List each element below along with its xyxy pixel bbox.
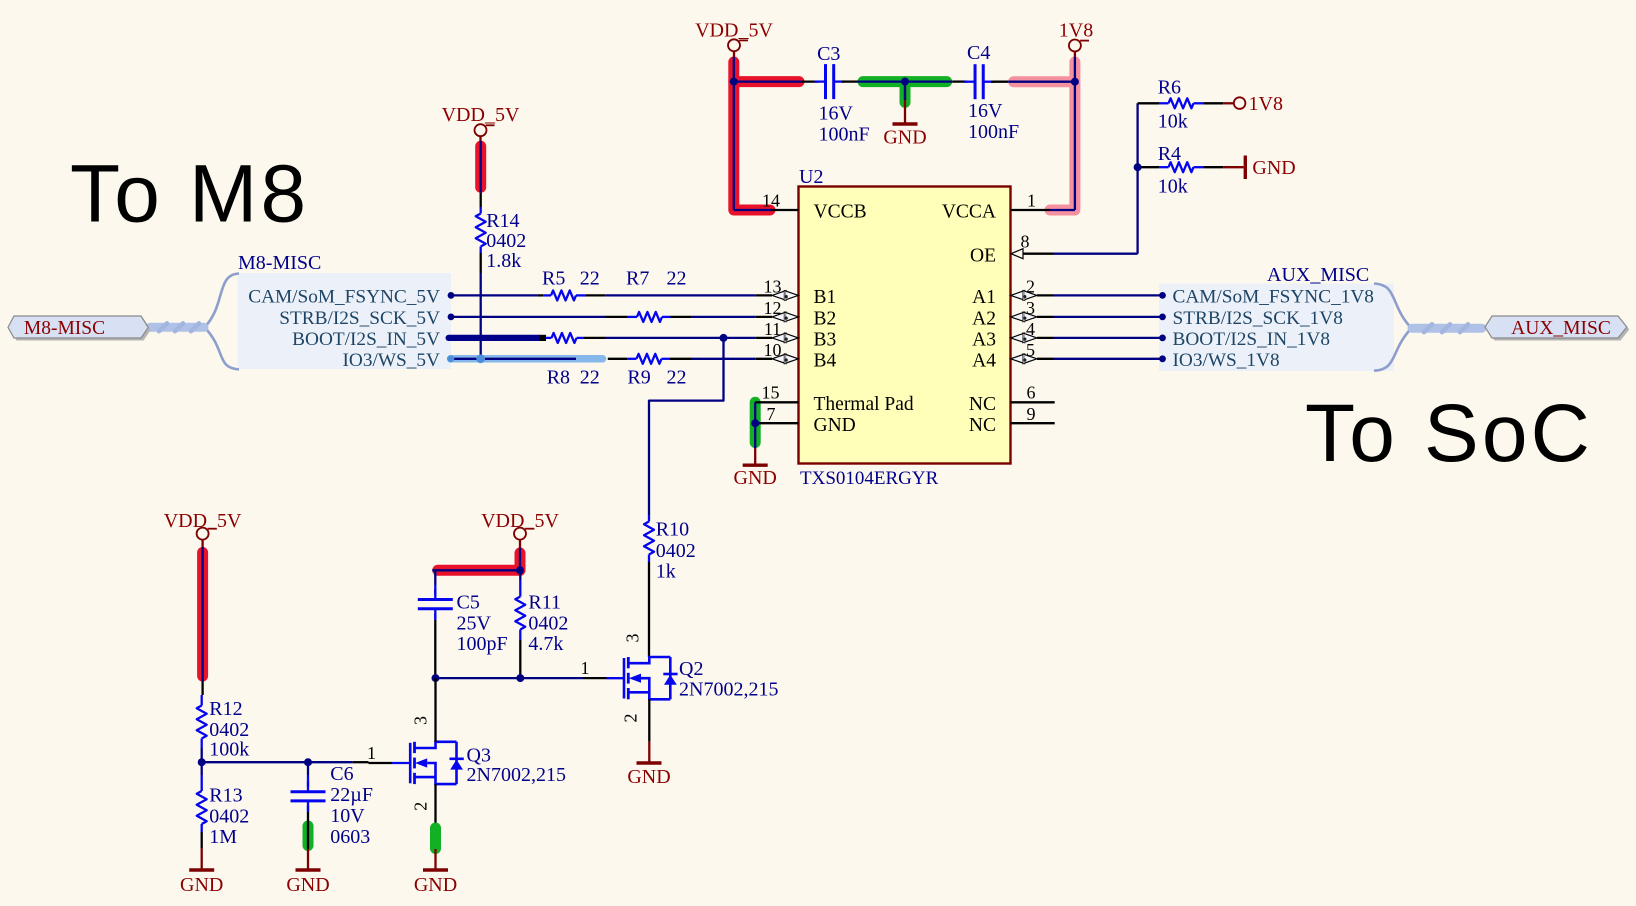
svg-text:R14: R14	[486, 210, 519, 232]
svg-text:Thermal Pad: Thermal Pad	[814, 394, 914, 415]
svg-text:1.8k: 1.8k	[486, 250, 521, 272]
svg-text:A2: A2	[972, 309, 996, 330]
svg-text:2N7002,215: 2N7002,215	[467, 764, 566, 786]
svg-text:1: 1	[367, 743, 376, 763]
svg-text:22: 22	[580, 367, 600, 389]
svg-text:VCCA: VCCA	[942, 202, 996, 223]
svg-text:1: 1	[581, 658, 590, 678]
svg-text:14: 14	[762, 191, 780, 211]
svg-text:VCCB: VCCB	[814, 202, 867, 223]
svg-text:0603: 0603	[330, 826, 370, 848]
svg-text:1M: 1M	[209, 826, 237, 848]
svg-text:15: 15	[762, 382, 780, 402]
svg-text:0402: 0402	[486, 230, 526, 252]
svg-text:100nF: 100nF	[968, 121, 1019, 143]
svg-text:R12: R12	[209, 698, 242, 720]
svg-text:GND: GND	[627, 766, 670, 788]
svg-text:16V: 16V	[819, 103, 854, 125]
svg-text:C6: C6	[330, 763, 353, 785]
svg-text:R13: R13	[209, 785, 242, 807]
svg-text:R11: R11	[528, 592, 561, 614]
svg-text:10k: 10k	[1158, 176, 1188, 198]
svg-text:6: 6	[1027, 383, 1036, 403]
svg-text:22: 22	[667, 268, 687, 290]
svg-text:1V8: 1V8	[1249, 93, 1283, 115]
svg-text:GND: GND	[734, 467, 777, 489]
svg-text:9: 9	[1027, 404, 1036, 424]
svg-text:A3: A3	[972, 330, 996, 351]
svg-text:B1: B1	[814, 287, 837, 308]
svg-text:AUX_MISC: AUX_MISC	[1267, 264, 1369, 286]
svg-text:R10: R10	[656, 519, 689, 541]
svg-text:1k: 1k	[656, 561, 676, 583]
svg-text:R4: R4	[1158, 143, 1181, 165]
svg-text:0402: 0402	[209, 806, 249, 828]
svg-text:GND: GND	[883, 127, 926, 149]
svg-text:10V: 10V	[330, 805, 365, 827]
svg-text:AUX_MISC: AUX_MISC	[1511, 318, 1611, 339]
svg-text:IO3/WS_1V8: IO3/WS_1V8	[1173, 350, 1280, 371]
svg-text:2: 2	[621, 714, 641, 723]
svg-text:12: 12	[764, 298, 782, 318]
svg-text:11: 11	[764, 319, 781, 339]
svg-text:C5: C5	[457, 592, 480, 614]
svg-text:5: 5	[1026, 340, 1035, 360]
svg-text:C3: C3	[817, 43, 840, 65]
svg-text:4: 4	[1026, 319, 1035, 339]
svg-text:U2: U2	[799, 166, 823, 188]
svg-text:Q2: Q2	[679, 658, 703, 680]
svg-text:8: 8	[1021, 232, 1030, 252]
svg-text:1V8: 1V8	[1059, 20, 1093, 42]
svg-text:R8: R8	[547, 367, 570, 389]
svg-text:M8-MISC: M8-MISC	[24, 318, 105, 339]
svg-text:2N7002,215: 2N7002,215	[679, 679, 778, 701]
svg-text:NC: NC	[969, 394, 996, 415]
svg-text:0402: 0402	[528, 613, 568, 635]
svg-text:B3: B3	[814, 330, 837, 351]
svg-text:22: 22	[667, 367, 687, 389]
svg-text:C4: C4	[967, 42, 990, 64]
svg-text:VDD_5V: VDD_5V	[695, 20, 773, 42]
svg-text:1: 1	[1027, 191, 1036, 211]
svg-text:NC: NC	[969, 415, 996, 436]
svg-text:25V: 25V	[457, 613, 492, 635]
svg-text:R7: R7	[626, 268, 649, 290]
svg-text:100pF: 100pF	[457, 633, 508, 655]
svg-text:100k: 100k	[209, 739, 249, 761]
svg-text:VDD_5V: VDD_5V	[442, 104, 520, 126]
svg-text:3: 3	[623, 634, 643, 643]
svg-text:10: 10	[764, 340, 782, 360]
svg-text:R5: R5	[542, 268, 565, 290]
svg-text:R6: R6	[1158, 77, 1181, 99]
svg-text:VDD_5V: VDD_5V	[481, 510, 559, 532]
svg-text:To SoC: To SoC	[1305, 388, 1593, 479]
svg-text:GND: GND	[180, 874, 223, 896]
svg-text:GND: GND	[1252, 157, 1295, 179]
svg-text:22: 22	[580, 268, 600, 290]
svg-text:B2: B2	[814, 309, 837, 330]
svg-text:7: 7	[767, 404, 776, 424]
svg-text:A1: A1	[972, 287, 996, 308]
svg-text:10k: 10k	[1158, 111, 1188, 133]
svg-text:0402: 0402	[656, 540, 696, 562]
svg-text:B4: B4	[814, 350, 837, 371]
svg-text:STRB/I2S_SCK_5V: STRB/I2S_SCK_5V	[279, 308, 440, 329]
svg-text:STRB/I2S_SCK_1V8: STRB/I2S_SCK_1V8	[1173, 308, 1343, 329]
svg-text:16V: 16V	[968, 100, 1003, 122]
svg-text:BOOT/I2S_IN_1V8: BOOT/I2S_IN_1V8	[1173, 329, 1330, 350]
svg-text:3: 3	[411, 716, 431, 725]
svg-text:BOOT/I2S_IN_5V: BOOT/I2S_IN_5V	[292, 329, 440, 350]
svg-text:2: 2	[1026, 277, 1035, 297]
svg-text:TXS0104ERGYR: TXS0104ERGYR	[800, 468, 939, 489]
svg-text:VDD_5V: VDD_5V	[164, 510, 242, 532]
svg-text:2: 2	[411, 802, 431, 811]
svg-text:GND: GND	[286, 874, 329, 896]
svg-text:GND: GND	[814, 415, 856, 436]
svg-text:13: 13	[764, 277, 782, 297]
svg-text:IO3/WS_5V: IO3/WS_5V	[343, 350, 441, 371]
svg-text:CAM/SoM_FSYNC_1V8: CAM/SoM_FSYNC_1V8	[1173, 287, 1374, 308]
svg-text:R9: R9	[627, 367, 650, 389]
svg-text:CAM/SoM_FSYNC_5V: CAM/SoM_FSYNC_5V	[248, 287, 440, 308]
svg-text:A4: A4	[972, 350, 996, 371]
svg-text:22µF: 22µF	[330, 784, 373, 806]
svg-text:4.7k: 4.7k	[528, 633, 563, 655]
svg-text:OE: OE	[970, 245, 996, 266]
svg-text:M8-MISC: M8-MISC	[238, 252, 321, 274]
svg-text:100nF: 100nF	[819, 124, 870, 146]
svg-text:To M8: To M8	[70, 149, 309, 240]
svg-text:3: 3	[1026, 298, 1035, 318]
svg-text:GND: GND	[414, 874, 457, 896]
